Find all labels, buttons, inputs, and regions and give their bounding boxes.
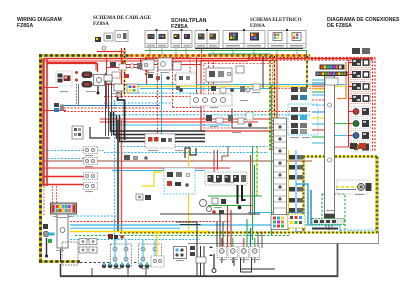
connector row headlight left — [190, 94, 232, 106]
frame black dashed bottom continuation — [80, 262, 160, 264]
glyphs inside red box center-left — [110, 62, 143, 78]
wire yellow vertical center — [188, 150, 190, 232]
frame yellow-black dashed bottom left segment — [39, 260, 80, 263]
wire red dashed nested box left edge — [173, 58, 202, 108]
connector block with colored pins left-center — [127, 84, 138, 93]
wire yellow vertical right stack — [288, 150, 290, 232]
wire red horizontal y122 — [100, 121, 258, 123]
wire multicolor band cyan y84 — [128, 84, 345, 86]
LEGEND — [95, 29, 306, 52]
main harness connector strip vertical — [274, 118, 287, 215]
wire cyan dashed y103 — [104, 102, 172, 104]
wire dark horizontal upper bottom-band — [160, 213, 260, 215]
component cluster mid center (flasher relay etc) — [206, 112, 253, 127]
wire teal vertical right of battery — [254, 165, 256, 215]
wire cyan dashed left y158 — [44, 158, 84, 160]
wire connector icons left of blue pair — [54, 103, 64, 112]
ground loop symbol — [212, 254, 216, 273]
wire black return y269 — [240, 268, 275, 270]
wire cyan dashed left y150 — [44, 150, 104, 152]
connector cluster top-left inside frame (handlebar switches) — [56, 71, 112, 95]
svg-text:FZ8SA: FZ8SA — [17, 23, 33, 29]
wire black ECU drop lines — [258, 232, 262, 248]
relay box with red elements center-left — [145, 134, 175, 148]
wire cyan stubs into coil blocks — [115, 240, 155, 262]
green dashed component bottom right — [312, 219, 344, 229]
wire left ECU colored stubs — [312, 80, 325, 143]
legend box group 4 — [223, 31, 265, 49]
wire red long horizontal mid — [44, 167, 230, 169]
wire green dashed bottom harness — [75, 235, 290, 237]
wire red feed above frame left — [97, 51, 126, 53]
small dark components bottom-left of coils — [108, 234, 124, 239]
wire red dashed pair to fuse panel — [53, 186, 57, 203]
legend box group 3 — [195, 31, 219, 48]
wire red secondary top horizontal — [44, 60, 248, 62]
legend box group 1 — [145, 31, 168, 48]
orange feeder — [337, 62, 346, 99]
relay box bottom center — [174, 247, 187, 259]
connector glyphs along right-center verticals — [289, 155, 303, 213]
wire black verticals bottom center — [197, 246, 204, 276]
frame yellow-black dashed left vertical — [39, 54, 42, 263]
relay connector rows top — [352, 59, 370, 102]
wire cyan mid horizontal — [112, 170, 205, 172]
wire red dashed harness horizontal A — [64, 107, 160, 109]
wire cyan dashed harness horizontal — [108, 114, 310, 116]
ignition coil block A bottom-left — [111, 244, 132, 266]
svg-text:FZ8SA: FZ8SA — [250, 24, 265, 29]
connector red small top — [121, 61, 126, 65]
wire red main feed top horizontal — [44, 58, 372, 60]
relay diode row center — [205, 172, 247, 185]
harness strip bottom connector with colored pins — [271, 215, 288, 230]
wire red feed into switch cluster — [47, 64, 98, 73]
connector pair rows left-bottom — [79, 239, 97, 254]
connector cluster below top frame center — [142, 58, 183, 92]
frame gray bottom-right lines — [60, 231, 379, 277]
wire cyan dashed vertical bundle left — [114, 100, 116, 247]
wire green horizontal battery area — [208, 195, 262, 197]
wire coil drops — [222, 257, 255, 263]
wire red dashed verticals center top — [209, 62, 214, 95]
wire black angle center — [232, 108, 268, 128]
connector pair lower center-left — [136, 194, 151, 200]
wire green horizontal 2 — [208, 205, 252, 207]
wire cyan vertical center-left — [161, 74, 163, 146]
wire red vertical pair to coils — [228, 206, 232, 247]
small connectors right of relay — [190, 246, 206, 263]
wire yellow stub to motor — [336, 186, 358, 188]
component boxes on bottom yellow harness — [288, 214, 305, 228]
center yellow sensor with pins — [151, 232, 164, 267]
wire cyan bottom harness 2 — [70, 227, 180, 229]
wire green top frame segment — [208, 53, 270, 55]
wire yellow-black dashed vertical right-center pair — [270, 56, 275, 150]
wire black step top center — [185, 148, 196, 158]
wire red branch to fuse block — [44, 176, 88, 178]
wire red branch 2 to fuse block — [44, 184, 88, 186]
wire green line above frame — [145, 51, 307, 57]
connector cluster center top (meter assembly) — [206, 66, 260, 93]
wire cyan horizontal y125 — [112, 124, 230, 126]
svg-text:DE FZ8SA: DE FZ8SA — [327, 23, 352, 29]
wire yellow-black dashed vertical drop from legend — [124, 48, 126, 96]
ignition coils row bottom center — [209, 246, 260, 258]
frame red-yellow dashed top mid segment — [130, 54, 310, 57]
wire black switch drop bottom left — [60, 249, 62, 262]
wire brown long horizontal — [44, 160, 312, 162]
wire cyan upper bottom-band — [248, 212, 305, 214]
wire red verticals center-left grid — [107, 57, 197, 108]
wire cyan dashed y93 — [128, 92, 200, 94]
wire red box upper-left — [47, 63, 96, 71]
red feeder with stubs — [349, 60, 354, 147]
wire cyan dashed y146 — [120, 146, 267, 148]
frame inner red rectangle center — [201, 61, 277, 132]
wire legend drop stubs — [150, 48, 297, 62]
wire yellow L center — [142, 172, 162, 186]
wire yellow-green dashed vertical center — [256, 146, 258, 196]
wire black line above frame — [195, 48, 303, 50]
wire red horizontal y64 — [121, 64, 201, 66]
small glyphs left of relay cluster — [124, 155, 148, 160]
wire red dashed vertical center-left — [157, 63, 159, 146]
wire red horizontal y119 — [100, 118, 270, 120]
connector cluster above top frame — [104, 75, 124, 97]
starter cable hooks — [238, 185, 246, 209]
wire multicolor band yellow y86 — [128, 85, 345, 87]
wire cyan bottom harness long — [70, 224, 340, 226]
legend top nubs and captions — [156, 29, 289, 31]
legend box group 2 — [171, 31, 192, 48]
wire black vertical cluster left top — [106, 73, 112, 136]
wire red vertical bundle left — [121, 120, 123, 232]
wire cyan vertical bottom right — [339, 225, 341, 232]
wire green dashed vertical right — [322, 194, 345, 220]
wire red-blue vertical pair from switches — [77, 84, 79, 106]
connector column left (fuses) — [84, 147, 98, 190]
wire multicolor band red dashed y88 — [268, 87, 330, 89]
svg-text:FZ8SA: FZ8SA — [93, 21, 109, 27]
connector stack right column pairs — [337, 58, 371, 153]
connector dashed box center-left — [176, 73, 196, 85]
wire cyan dashed long mid horizontal — [104, 152, 268, 154]
connector box left of bundle — [72, 126, 83, 139]
wire red dashed y96.5 — [104, 96, 190, 98]
wire cyan dashed bottom harness — [70, 239, 200, 241]
FRAMES — [39, 49, 379, 278]
connector icon above frame left — [95, 31, 128, 43]
wire red left second vertical — [46, 58, 48, 186]
wire green vertical center — [252, 146, 254, 240]
wire teal vertical to coils — [250, 228, 252, 247]
wire coil feed drops — [222, 238, 255, 248]
servo motor right — [337, 180, 372, 194]
wire black verticals into coil row — [217, 214, 223, 247]
wire black L-tops bottom center — [176, 222, 201, 246]
frame red dashed box top-right — [248, 58, 375, 153]
wire red vertical drop from legend — [121, 48, 123, 98]
fuse block with colored pins bottom-left — [51, 203, 77, 217]
multi-pin black connector bundle left — [90, 112, 205, 142]
wire blue harness horizontal — [64, 105, 160, 107]
wire red box center-left cluster — [107, 59, 147, 85]
clutch switch and lever left — [43, 224, 55, 258]
wire red stub left y87 — [44, 87, 58, 89]
wire red dashed small rect top-left — [146, 58, 191, 76]
wire brown vertical — [222, 146, 228, 161]
wire black step upper-left bundle — [118, 92, 125, 140]
wire black verticals left of coils — [92, 268, 146, 276]
wire cyan dashed above switch — [70, 215, 120, 217]
battery and starter cluster — [212, 198, 226, 214]
wire yellow-black dashed vertical right — [306, 56, 308, 88]
label specks (tiny captions) — [56, 72, 364, 269]
wire right column stubs to connector stack — [335, 124, 348, 148]
wire red dashed between yellow pair — [271, 56, 273, 150]
wire red dashed harness horizontal B — [64, 111, 310, 113]
wire dark vertical x263 — [262, 56, 264, 88]
wire yellow bottom harness long — [70, 231, 208, 233]
wire red left main vertical — [42, 58, 44, 186]
wire black coil grounds — [222, 256, 252, 272]
battery circles — [199, 199, 211, 211]
wire red dashed bottom harness — [70, 221, 230, 223]
wire red branch upper left — [44, 110, 66, 112]
indicator lamp rows bottom — [353, 108, 369, 151]
wire cyan horizontal upper — [140, 88, 268, 90]
ECU tall box — [324, 76, 335, 230]
legend box group 5 — [268, 31, 306, 49]
rainbow logo connector strip — [316, 65, 348, 86]
connector circle glyph above frame — [102, 46, 106, 50]
connectors top right above red frame — [352, 48, 370, 54]
wire red white-dashed frame left inner vertical — [43, 186, 45, 216]
wire green vertical to coils — [246, 219, 248, 247]
wire dark gray thick vertical bundle — [117, 120, 119, 232]
sidestand switch unit bottom-left — [57, 214, 78, 265]
ignition coil block B bottom-left — [139, 244, 162, 266]
wire green vertical harness left — [271, 85, 273, 235]
svg-text:SCHEMA ELETTRICO: SCHEMA ELETTRICO — [250, 18, 302, 23]
wire cyan vertical right stack — [295, 150, 297, 232]
relay cluster dashed box center-left — [164, 168, 195, 194]
frame inner yellow-black checkered right box — [120, 157, 377, 234]
connector pair above yellow frame right — [350, 143, 366, 149]
connector stack left of ECU lower — [296, 184, 311, 225]
frame yellow-black dashed top left segment — [39, 54, 130, 57]
wire red vertical right of battery — [250, 155, 252, 215]
dotted row outlines — [351, 58, 371, 104]
svg-text:FZ8SA: FZ8SA — [171, 24, 188, 30]
spark plug terminal row bottom-left — [102, 263, 149, 269]
connector stack right-mid — [288, 87, 318, 135]
wire cyan dashed right bottom segment — [340, 229, 377, 231]
wire blue underline to motor — [336, 189, 356, 191]
wire red verticals left-center rise — [214, 150, 218, 176]
TITLES — [17, 15, 400, 30]
